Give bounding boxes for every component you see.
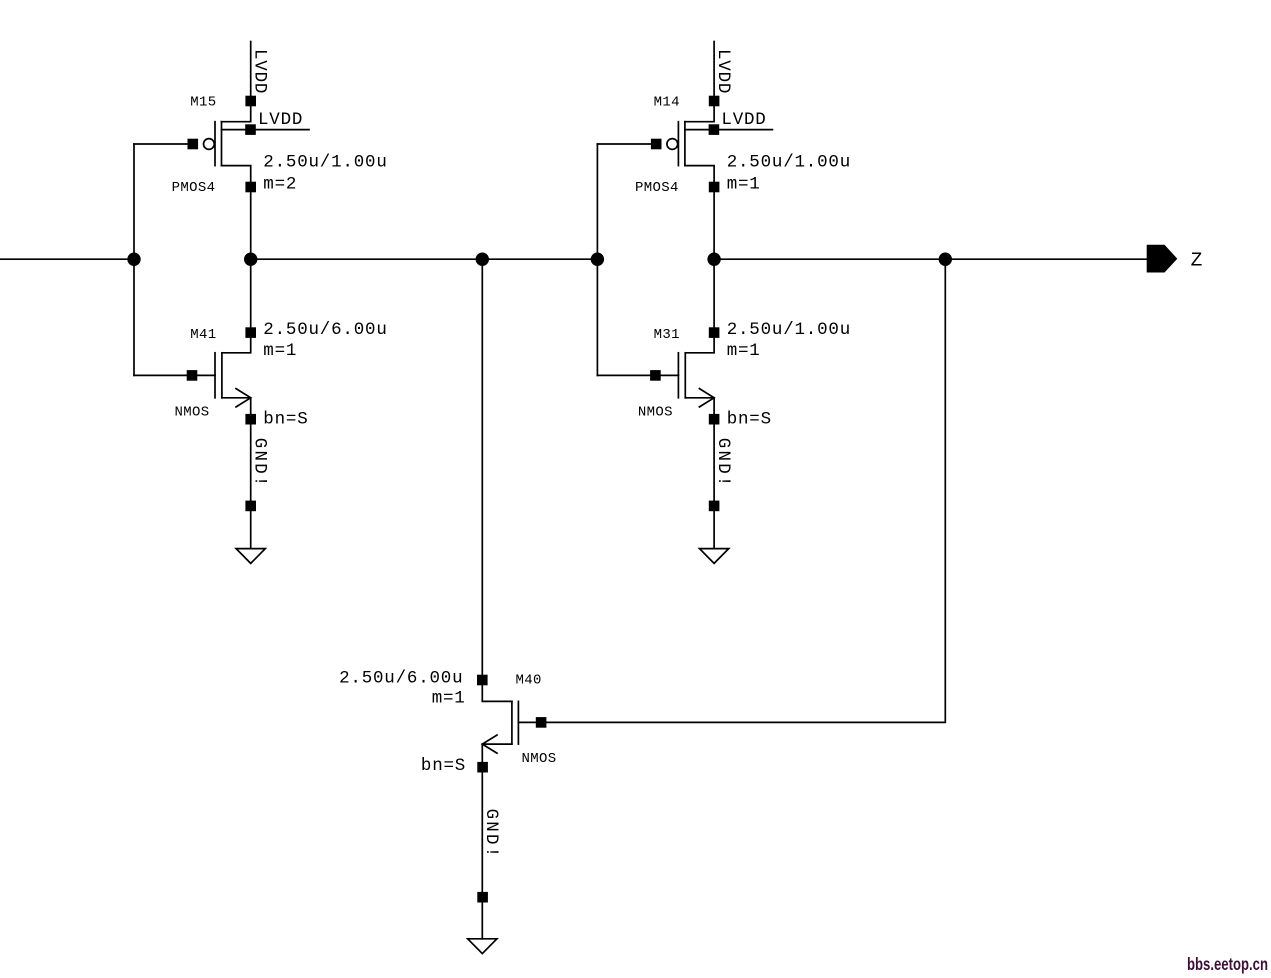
svg-text:m=1: m=1 xyxy=(432,689,466,709)
svg-text:m=1: m=1 xyxy=(727,341,761,361)
svg-text:M14: M14 xyxy=(654,95,680,111)
pmos M15 source lead xyxy=(222,101,251,122)
wire gate riser right xyxy=(596,144,598,375)
wire LVDD supply stub M15 xyxy=(250,42,252,102)
pin square gnd M40 xyxy=(477,892,488,903)
pin square M15 drain xyxy=(245,182,256,193)
svg-text:Z: Z xyxy=(1191,249,1203,271)
svg-text:GND!: GND! xyxy=(250,438,270,489)
pin square M40 source xyxy=(477,762,488,773)
wire M14 drain to node xyxy=(713,187,715,333)
nmos M40 source arrow xyxy=(482,735,497,753)
wire LVDD supply stub M14 xyxy=(713,42,715,102)
pmos M14 drain lead xyxy=(685,166,714,187)
wire M15 drain to node xyxy=(250,187,252,333)
svg-text:bn=S: bn=S xyxy=(263,409,308,429)
nmos M41 source lead xyxy=(222,398,251,414)
junction center tap node xyxy=(476,253,489,266)
wire M41 source to ground xyxy=(250,419,252,548)
pin square M14 bulk xyxy=(709,124,720,135)
pmos M15 bulk lead wire xyxy=(222,129,310,131)
pin square M31 source xyxy=(709,414,720,425)
pin square M15 source (LVDD) xyxy=(245,96,256,107)
svg-text:NMOS: NMOS xyxy=(522,751,557,767)
svg-text:NMOS: NMOS xyxy=(638,404,673,420)
pin square M14 source (LVDD) xyxy=(709,96,720,107)
pin square M31 drain xyxy=(709,327,720,338)
pmos M15 channel xyxy=(221,122,223,166)
svg-text:2.50u/1.00u: 2.50u/1.00u xyxy=(263,153,387,173)
nmos M40 source lead xyxy=(482,744,512,762)
nmos M31 gate bar xyxy=(677,353,679,398)
svg-text:bbs.eetop.cn: bbs.eetop.cn xyxy=(1187,954,1268,974)
wire M14 gate stub xyxy=(597,143,656,145)
svg-text:2.50u/1.00u: 2.50u/1.00u xyxy=(727,320,851,340)
ground symbol M40 xyxy=(468,939,497,954)
pin square M40 drain xyxy=(477,675,488,686)
svg-text:M41: M41 xyxy=(190,327,216,343)
svg-text:LVDD: LVDD xyxy=(721,110,766,130)
nmos M40 drain lead xyxy=(482,680,512,701)
junction right drain node xyxy=(707,253,720,266)
wire M40 gate to Z node xyxy=(546,259,945,722)
pmos M15 gate bar xyxy=(214,122,216,166)
svg-text:PMOS4: PMOS4 xyxy=(172,180,216,196)
wire M15 gate stub xyxy=(134,143,193,145)
nmos M40 gate bar xyxy=(517,701,519,744)
svg-text:NMOS: NMOS xyxy=(175,404,210,420)
wire input net left edge xyxy=(0,258,134,260)
svg-text:m=1: m=1 xyxy=(263,341,297,361)
nmos M31 gate lead xyxy=(656,374,678,376)
svg-text:GND!: GND! xyxy=(481,809,501,860)
nmos M41 gate lead xyxy=(193,374,215,376)
nmos M41 drain lead xyxy=(222,333,251,353)
pin square M31 gate xyxy=(650,370,661,381)
wire M41 gate stub xyxy=(134,374,192,376)
nmos M41 gate bar xyxy=(214,353,216,398)
pmos M14 gate bar xyxy=(677,122,679,166)
wire center tap to M40 drain xyxy=(481,259,483,680)
pin square M40 gate xyxy=(536,717,547,728)
pmos M15 drain lead xyxy=(222,166,251,187)
svg-text:M31: M31 xyxy=(654,327,680,343)
svg-text:PMOS4: PMOS4 xyxy=(635,180,679,196)
wire M31 gate stub xyxy=(597,374,655,376)
ground symbol right xyxy=(700,549,729,564)
pmos M14 bulk lead wire xyxy=(685,129,773,131)
wire output bus segment 1 xyxy=(251,258,598,260)
output pin Z arrow xyxy=(1147,245,1178,273)
svg-text:2.50u/6.00u: 2.50u/6.00u xyxy=(263,320,387,340)
junction Z feedback node xyxy=(939,253,952,266)
pin square M15 bulk xyxy=(245,124,256,135)
svg-text:m=1: m=1 xyxy=(727,174,761,194)
nmos M31 source arrow xyxy=(699,389,714,407)
nmos M40 gate lead xyxy=(518,721,536,723)
svg-text:GND!: GND! xyxy=(713,438,733,489)
pmos M14 gate bubble xyxy=(667,139,678,150)
pin square gnd right xyxy=(709,501,720,512)
pmos M15 gate bubble xyxy=(204,139,215,150)
svg-text:bn=S: bn=S xyxy=(727,409,772,429)
nmos M31 drain lead xyxy=(685,333,714,353)
svg-text:m=2: m=2 xyxy=(263,174,297,194)
nmos M40 channel xyxy=(511,701,513,744)
svg-text:bn=S: bn=S xyxy=(421,756,466,776)
svg-text:LVDD: LVDD xyxy=(713,49,733,94)
svg-text:M15: M15 xyxy=(190,95,216,111)
svg-text:2.50u/1.00u: 2.50u/1.00u xyxy=(727,153,851,173)
pmos M14 source lead xyxy=(685,101,714,122)
pin square M41 gate xyxy=(187,370,198,381)
junction right gate node xyxy=(591,253,604,266)
wire M40 source to ground xyxy=(481,767,483,939)
junction left drain node xyxy=(244,253,257,266)
nmos M41 source arrow xyxy=(236,389,251,407)
wire M31 source to ground xyxy=(713,419,715,548)
nmos M41 channel xyxy=(221,353,223,398)
wire output bus segment 2 xyxy=(714,258,1147,260)
svg-text:2.50u/6.00u: 2.50u/6.00u xyxy=(339,669,463,689)
svg-text:M40: M40 xyxy=(516,673,542,689)
pmos M14 channel xyxy=(684,122,686,166)
pin square M41 source xyxy=(245,414,256,425)
pin square M41 drain xyxy=(245,327,256,338)
nmos M31 channel xyxy=(684,353,686,398)
svg-text:LVDD: LVDD xyxy=(258,110,303,130)
ground symbol left xyxy=(236,549,265,564)
svg-text:LVDD: LVDD xyxy=(250,49,270,94)
pin square M15 gate xyxy=(188,139,199,150)
pin square M14 gate xyxy=(651,139,662,150)
nmos M31 source lead xyxy=(685,398,714,414)
pin square M14 drain xyxy=(709,182,720,193)
junction left gate node xyxy=(127,253,140,266)
pin square gnd left xyxy=(245,501,256,512)
wire gate riser left xyxy=(133,144,135,375)
